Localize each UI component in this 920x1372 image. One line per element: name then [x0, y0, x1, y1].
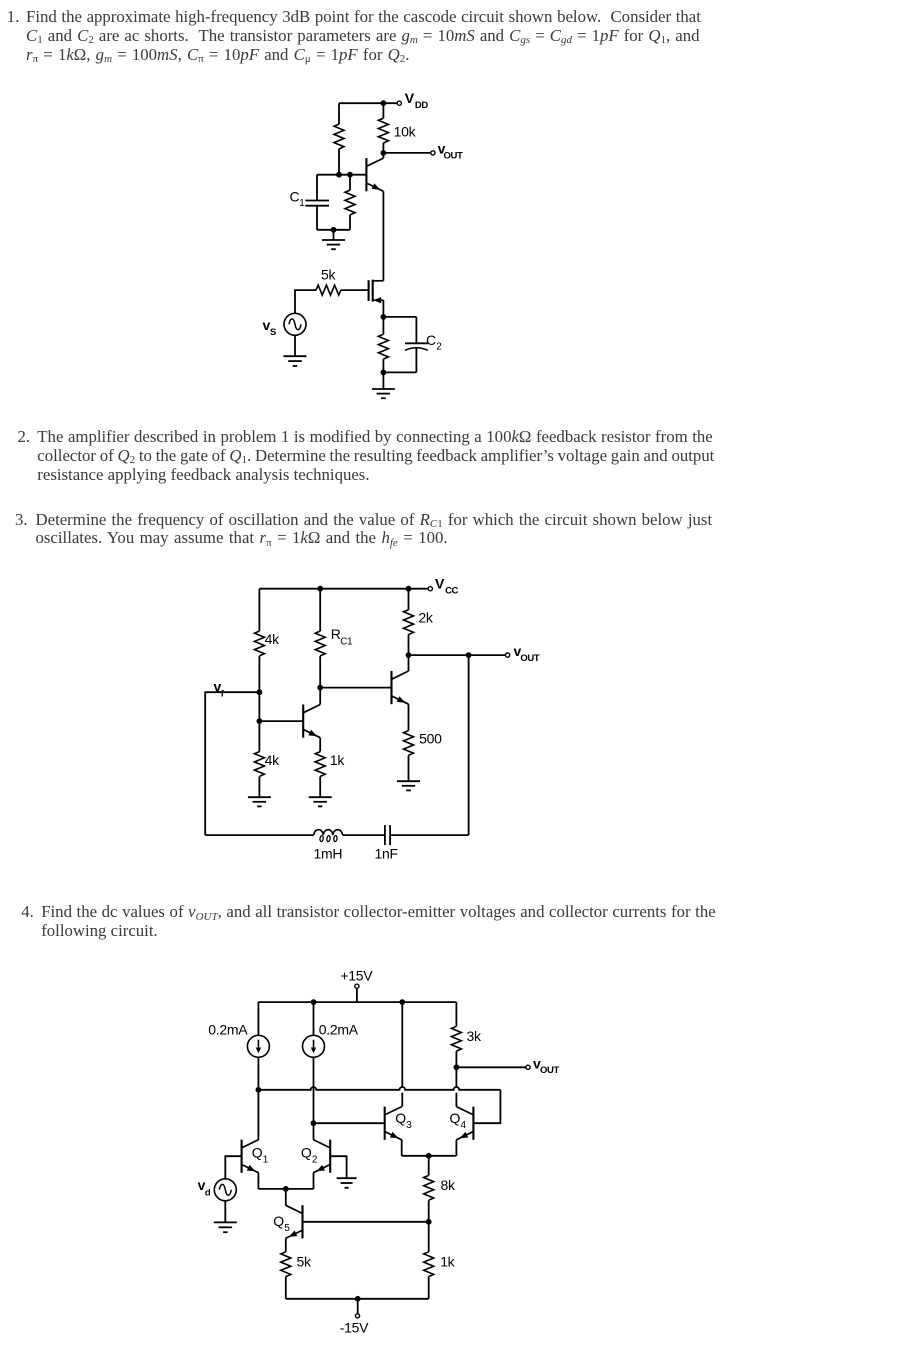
- svg-text:1: 1: [263, 1155, 269, 1166]
- node: bottom tie dot: [331, 227, 337, 233]
- wire: bias resistor top lead: [338, 103, 340, 124]
- node: rail dot current source 2: [311, 999, 317, 1005]
- svg-text:Q: Q: [273, 1213, 284, 1229]
- problem 4 text: [21, 903, 34, 922]
- svg-text:1k: 1k: [440, 1253, 455, 1269]
- svg-text:R: R: [331, 626, 341, 642]
- wire: ground stem circuit1 base network: [333, 230, 335, 240]
- svg-text:4k: 4k: [265, 631, 280, 647]
- wire: source node to C2 branch: [383, 316, 416, 318]
- svg-text:-15V: -15V: [340, 1319, 369, 1335]
- wire: base bottom resistor top lead: [349, 175, 351, 190]
- source vs sine source: [284, 313, 306, 335]
- wire: bottom rail right segment: [390, 834, 469, 836]
- resistor RC1: [315, 631, 325, 656]
- wire: 1k lower lead: [428, 1277, 430, 1299]
- wire: bottom tie resistor/C2: [383, 371, 416, 373]
- wire: -15V bottom rail: [286, 1298, 429, 1300]
- wire: base bottom resistor lower lead: [349, 215, 351, 230]
- ground symbol under 1k: [309, 797, 332, 806]
- terminal -15V open circle: [355, 1314, 359, 1318]
- transistor Q5 mirrored: [286, 1205, 303, 1238]
- wire: Q1/Q2 emitter rail: [258, 1188, 313, 1190]
- resistor 4k lower: [254, 752, 264, 777]
- transistor Q1 circuit3: [303, 705, 320, 738]
- wire: Q3/Q4 emitter rail: [402, 1155, 457, 1157]
- wire: VCC top rail: [259, 588, 428, 590]
- resistor 2k: [404, 610, 414, 635]
- wire: 5k lower lead: [285, 1277, 287, 1299]
- wire: feedback right arm: [468, 655, 470, 835]
- resistor 8k: [424, 1175, 434, 1200]
- wire: Q3 emitter vertical: [401, 1140, 403, 1156]
- wire: 3k upper lead: [455, 1002, 457, 1026]
- svg-text:2: 2: [312, 1155, 318, 1166]
- svg-text:OUT: OUT: [540, 1065, 559, 1076]
- node: 8k/1k junction dot: [426, 1219, 432, 1225]
- wire: 4k lower to ground: [258, 776, 260, 797]
- wire: left branch middle: [258, 656, 260, 721]
- svg-text:0.2mA: 0.2mA: [208, 1022, 248, 1038]
- resistor 5k horizontal: [316, 285, 341, 295]
- wire: RC1 upper lead: [319, 589, 321, 631]
- wire: bottom tie C1/resistor: [317, 229, 350, 231]
- wire: top rail circuit4: [258, 1001, 456, 1003]
- node: rail dot Q3 branch: [399, 999, 405, 1005]
- wire: Q1 source lead with arrow: [373, 299, 384, 301]
- wire: 8k lower lead: [428, 1200, 430, 1222]
- circuit 1: cascode amplifier: [263, 90, 463, 398]
- svg-text:8k: 8k: [441, 1177, 456, 1193]
- wire: Q5 emitter vertical: [285, 1238, 287, 1251]
- svg-text:2k: 2k: [418, 610, 433, 626]
- wire: Q4 collector vertical crossing bus: [455, 1067, 457, 1087]
- wire: 500 to ground: [408, 755, 410, 781]
- node: bias resistor to base dot: [336, 172, 342, 178]
- svg-text:OUT: OUT: [520, 653, 539, 664]
- capacitor C1: [305, 201, 329, 206]
- wire: vs to 5k: [295, 290, 316, 313]
- wire: Q3 collector vertical crossing bus: [401, 1002, 403, 1087]
- transistor Q1 NMOS gate bar: [368, 280, 370, 301]
- transistor Q1 NMOS channel bar: [372, 280, 374, 302]
- svg-text:V: V: [435, 576, 445, 592]
- svg-text:4k: 4k: [265, 752, 280, 768]
- terminal VDD open circle: [397, 101, 401, 105]
- wire: 10k bottom lead to vout node: [382, 143, 384, 153]
- terminal +15V open circle: [355, 984, 359, 988]
- svg-text:OUT: OUT: [444, 150, 463, 161]
- source vd sine source: [214, 1179, 236, 1201]
- wire: C1 bottom lead: [316, 206, 318, 230]
- node: rail dot at RC1: [317, 586, 323, 592]
- node: vout node circuit3: [406, 652, 412, 658]
- circuit 4: dc amplifier: [198, 968, 560, 1336]
- wire: vout lead: [383, 152, 430, 154]
- transistor Q1 circuit4: [242, 1140, 259, 1173]
- svg-text:Q: Q: [450, 1110, 461, 1126]
- svg-text:C1: C1: [340, 636, 353, 647]
- svg-text:5: 5: [284, 1223, 290, 1234]
- svg-text:1: 1: [299, 198, 305, 209]
- ground symbol base network: [322, 240, 345, 249]
- svg-text:3: 3: [406, 1120, 412, 1131]
- node: source node dot: [381, 314, 387, 320]
- wire: Q1 emitter vertical: [257, 1173, 259, 1189]
- wire: 3k lower lead: [455, 1051, 457, 1067]
- node: bus dot at Q1 collector branch: [256, 1087, 262, 1093]
- wire: VDD top rail: [339, 102, 397, 104]
- node: bottom resistor to base dot: [347, 172, 353, 178]
- resistor: source degeneration resistor: [378, 334, 388, 359]
- current source I2 0.2mA: [303, 1035, 325, 1057]
- wire: Q2 emitter vertical: [313, 1173, 315, 1189]
- wire: source resistor bottom lead: [382, 359, 384, 372]
- ground symbol circuit1 bottom: [372, 389, 395, 398]
- node: vout node circuit4: [454, 1064, 460, 1070]
- wire: Q1 collector vertical: [257, 1090, 259, 1140]
- wire: Q2 collector vertical: [382, 153, 384, 158]
- node: emitter rail dot: [426, 1153, 432, 1159]
- wire: 2k upper lead: [408, 589, 410, 610]
- ground symbol under 500: [397, 781, 420, 790]
- problem 1 text: [7, 8, 20, 27]
- svg-text:S: S: [270, 327, 276, 338]
- svg-text:1nF: 1nF: [375, 846, 398, 862]
- node: VDD junction dot: [381, 100, 387, 106]
- svg-text:1k: 1k: [330, 752, 345, 768]
- wire: left branch upper lead: [258, 589, 260, 631]
- wire: Q5 collector vertical: [285, 1189, 287, 1205]
- terminal vout open circle: [431, 151, 435, 155]
- wire: vs ground stem: [294, 335, 296, 356]
- node: emitter rail dot Q1Q2: [283, 1186, 289, 1192]
- wire: 1k upper lead: [428, 1222, 430, 1252]
- wire: bias resistor bottom lead: [338, 149, 340, 175]
- transistor Q2 circuit3: [392, 671, 409, 704]
- wire: current source 2 upper lead: [313, 1002, 315, 1035]
- wire: vout horizontal: [409, 654, 506, 656]
- svg-text:V: V: [405, 90, 415, 106]
- resistor: bias resistor (unlabeled) upper: [334, 124, 344, 149]
- ground symbol Q2 base: [337, 1178, 357, 1188]
- wire: -15V stem: [357, 1299, 359, 1314]
- wire: vf feedback left arm: [205, 692, 259, 835]
- svg-text:+15V: +15V: [340, 968, 373, 984]
- svg-text:C: C: [426, 332, 436, 348]
- svg-text:d: d: [205, 1187, 211, 1198]
- problem 2 text: [18, 428, 31, 447]
- wire: base node horizontal: [317, 174, 366, 176]
- inductor 1mH curls: [320, 835, 338, 841]
- transistor Q2 circuit4 mirrored: [313, 1140, 330, 1173]
- problem 3 text: [15, 511, 28, 530]
- svg-text:C: C: [290, 189, 300, 205]
- svg-text:5k: 5k: [321, 266, 336, 282]
- wire: Q2 base lead: [320, 687, 391, 689]
- terminal vout circuit4: [526, 1065, 530, 1069]
- wire: Q3 base lead: [314, 1122, 385, 1124]
- wire: Q2 emitter to Q1 drain vertical: [382, 191, 384, 280]
- wire: current source 1 lower lead: [257, 1057, 259, 1090]
- wire: Q1 drain lead: [373, 280, 384, 282]
- svg-text:4: 4: [461, 1120, 467, 1131]
- resistor 4k upper: [254, 631, 264, 656]
- transistor Q2 BJT npn: [366, 158, 383, 191]
- wire: 2k lower lead: [408, 635, 410, 656]
- wire: +15V stem: [356, 988, 358, 1002]
- wire: bottom rail left segment: [205, 834, 314, 836]
- node: Q3 base tap dot: [311, 1120, 317, 1126]
- capacitor C2 curved plate: [405, 348, 428, 351]
- wire: ground stem circuit1 bottom: [382, 372, 384, 388]
- wire: C2 top lead: [415, 317, 417, 343]
- svg-text:DD: DD: [415, 100, 428, 111]
- wire: 8k upper lead: [428, 1156, 430, 1176]
- svg-text:5k: 5k: [297, 1253, 312, 1269]
- wire: current source 2 lower lead crossing bus: [313, 1057, 315, 1123]
- svg-text:2: 2: [436, 342, 442, 353]
- wire: source resistor top lead: [382, 317, 384, 334]
- arrow: Q1 source arrowhead: [374, 297, 382, 303]
- wire: Q1 gate lead: [341, 289, 369, 291]
- svg-text:10k: 10k: [394, 123, 417, 139]
- svg-text:3k: 3k: [467, 1028, 482, 1044]
- svg-text:0.2mA: 0.2mA: [319, 1022, 359, 1038]
- wire: RC1 lower lead: [319, 656, 321, 688]
- terminal vout circuit3: [506, 653, 510, 657]
- wire: Q2 base lead to ground: [330, 1156, 346, 1178]
- wire: current source 1 upper lead: [257, 1002, 259, 1035]
- capacitor C2 top plate: [405, 342, 428, 344]
- resistor 1k circuit4: [424, 1252, 434, 1277]
- node: rail dot at 2k: [406, 586, 412, 592]
- svg-text:CC: CC: [445, 585, 458, 596]
- node: Q1 collector / Q2 base dot: [317, 685, 323, 691]
- wire: bottom rail middle segment: [343, 834, 385, 836]
- wire: Q1 source down to node: [382, 300, 384, 317]
- svg-text:1mH: 1mH: [314, 846, 343, 862]
- transistor Q3: [385, 1107, 402, 1140]
- wire: vout horizontal circuit4: [456, 1066, 526, 1068]
- wire: vd ground stem: [224, 1201, 226, 1223]
- svg-text:500: 500: [419, 730, 442, 746]
- wire: Q2 emitter vertical: [408, 704, 410, 730]
- wire: vd to Q1 base: [225, 1156, 241, 1179]
- wire: Q1 base lead: [259, 720, 303, 722]
- resistor 3k: [451, 1026, 461, 1051]
- resistor R 10k: [378, 118, 388, 143]
- svg-text:f: f: [221, 688, 225, 699]
- capacitor 1nF: [385, 825, 390, 845]
- wire: C1 top lead: [316, 175, 318, 201]
- wire: 1k to ground: [319, 776, 321, 797]
- resistor 5k circuit4: [281, 1252, 291, 1277]
- resistor 1k emitter: [315, 752, 325, 777]
- circuit 3: oscillator: [205, 576, 540, 862]
- wire: Q2 collector vertical: [313, 1123, 315, 1139]
- svg-text:Q: Q: [301, 1145, 312, 1161]
- node: feedback tap dot: [466, 652, 472, 658]
- wire: C2 bottom lead: [415, 348, 417, 372]
- ground symbol under vd: [214, 1222, 237, 1232]
- inductor 1mH: [314, 830, 343, 835]
- wire: bus right arm down to Q4 base: [473, 1090, 500, 1123]
- svg-text:Q: Q: [395, 1110, 406, 1126]
- resistor 500: [404, 731, 414, 756]
- wire: bus with hops: [258, 1087, 500, 1090]
- node: vf node dot: [257, 689, 263, 695]
- terminal VCC open circle: [428, 587, 432, 591]
- node: -15V stem dot: [355, 1296, 361, 1302]
- wire: Q5 base lead: [303, 1221, 429, 1223]
- wire: left branch lower lead: [258, 721, 260, 752]
- transistor Q4 mirrored: [456, 1107, 473, 1140]
- wire: Q4 emitter vertical: [455, 1140, 457, 1156]
- node: Q1 base tap dot: [257, 718, 263, 724]
- node: bottom tie dot circuit1: [381, 370, 387, 376]
- wire: Q1 collector vertical: [319, 688, 321, 705]
- resistor: base-to-ground resistor: [345, 190, 355, 215]
- wire: Q1 emitter vertical: [319, 738, 321, 752]
- ground symbol under vs: [284, 356, 307, 366]
- svg-text:Q: Q: [252, 1145, 263, 1161]
- wire: Q2 collector vertical: [408, 655, 410, 671]
- current source I1 0.2mA: [247, 1035, 269, 1057]
- node: vout junction dot: [381, 150, 387, 156]
- ground symbol under lower 4k: [248, 797, 271, 806]
- wire: 10k top lead: [382, 103, 384, 118]
